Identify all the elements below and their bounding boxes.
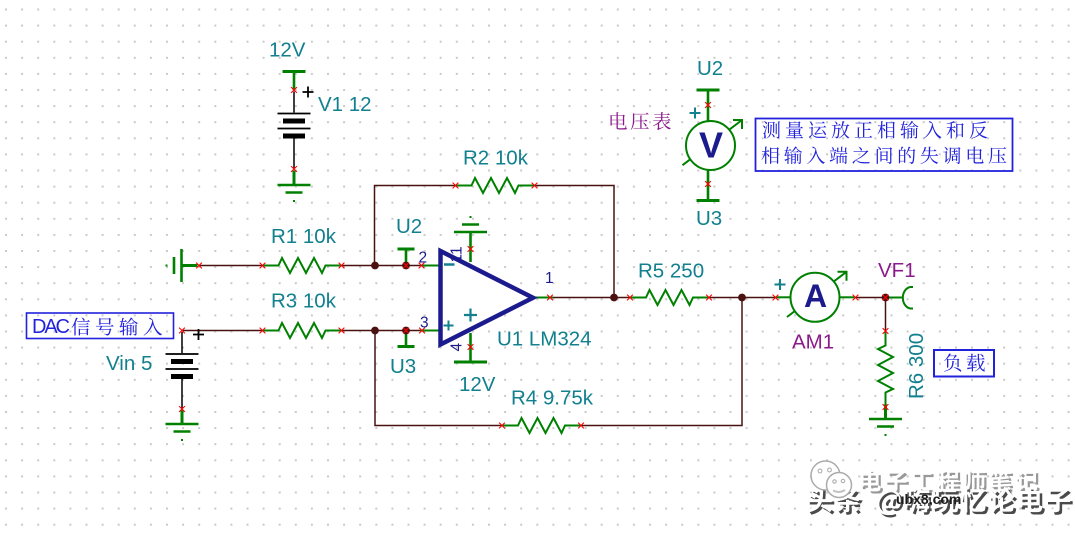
svg-text:VF1: VF1 — [878, 259, 916, 282]
svg-text:2: 2 — [419, 250, 428, 267]
svg-text:3: 3 — [420, 315, 429, 332]
svg-text:R6 300: R6 300 — [905, 333, 928, 399]
svg-text:R5 250: R5 250 — [638, 260, 704, 283]
svg-text:11: 11 — [449, 246, 466, 262]
svg-text:R3 10k: R3 10k — [271, 290, 337, 313]
svg-text:R2 10k: R2 10k — [463, 147, 529, 170]
svg-text:U1 LM324: U1 LM324 — [497, 328, 592, 351]
svg-text:DAC: DAC — [32, 316, 70, 338]
svg-text:U2: U2 — [697, 57, 723, 80]
svg-text:ubx8.com: ubx8.com — [896, 491, 961, 507]
svg-text:U3: U3 — [696, 207, 722, 230]
svg-text:R1 10k: R1 10k — [271, 225, 337, 248]
svg-text:12V: 12V — [269, 39, 306, 62]
svg-text:U3: U3 — [390, 355, 416, 378]
svg-text:4: 4 — [449, 343, 466, 352]
svg-text:A: A — [804, 278, 827, 314]
svg-text:1: 1 — [545, 270, 554, 287]
svg-text:R4 9.75k: R4 9.75k — [511, 387, 594, 410]
svg-text:V1 12: V1 12 — [318, 93, 372, 116]
svg-text:AM1: AM1 — [792, 331, 834, 354]
svg-text:V: V — [699, 125, 723, 166]
svg-text:Vin 5: Vin 5 — [106, 352, 152, 375]
svg-text:12V: 12V — [459, 373, 496, 396]
svg-text:U2: U2 — [396, 215, 422, 238]
